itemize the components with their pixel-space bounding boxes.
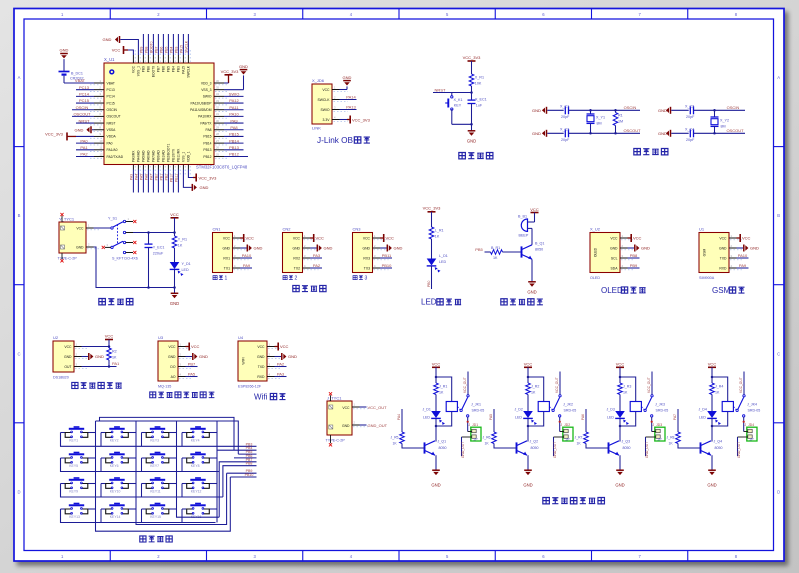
power VCC relay2 [524,361,533,383]
svg-text:PB4: PB4 [172,66,176,72]
svg-text:RXD: RXD [719,266,727,270]
svg-text:J_D1: J_D1 [423,408,431,412]
svg-text:20pF: 20pF [561,115,570,119]
svg-text:J_R8: J_R8 [667,436,675,440]
svg-text:LED: LED [699,416,706,420]
relay J_JK4 coil [722,402,760,413]
svg-text:PC13: PC13 [107,88,115,92]
svg-text:B: B [18,213,21,218]
svg-text:2P: 2P [750,438,755,442]
labels keyboard nets [245,442,254,477]
svg-text:SDA: SDA [611,266,619,270]
svg-text:1M: 1M [618,120,623,124]
relay switch J_JK2 [549,372,561,432]
svg-text:VCC: VCC [322,88,330,92]
wire keyboard row1 bus [61,433,257,447]
wire relay4 coil feed [711,376,728,402]
wire buzzer base [503,251,522,253]
svg-text:VCC_3V3: VCC_3V3 [423,206,442,211]
svg-text:VCC: VCC [257,345,265,349]
svg-text:PB9: PB9 [140,46,144,53]
svg-text:GND: GND [75,127,84,132]
svg-text:PB4: PB4 [170,46,174,53]
svg-text:VCC: VCC [223,236,231,240]
svg-text:PA5: PA5 [188,372,196,377]
svg-text:TX2: TX2 [294,266,300,270]
key KEY11 [142,477,174,493]
wire PA2 CN2 [310,263,322,268]
transistor J_Q4 [701,440,723,456]
svg-text:VBAT: VBAT [75,78,86,83]
svg-text:L_D1: L_D1 [439,254,448,258]
svg-text:GND: GND [64,355,72,359]
svg-text:PA15: PA15 [182,66,186,74]
wire relay3 emitter [619,455,621,470]
pins U3 [168,342,193,379]
svg-text:PA13: PA13 [346,105,356,110]
wires keyboard bundle [217,450,257,517]
svg-text:VCC_OUT: VCC_OUT [555,377,559,393]
svg-text:J_JD3: J_JD3 [653,423,663,427]
caption J-Link OB interface [317,136,370,145]
svg-text:KEY7: KEY7 [150,464,159,468]
svg-text:VCC: VCC [293,236,301,240]
svg-text:GND: GND [658,131,667,136]
caption crystal circuit [634,148,668,154]
svg-text:PA12/USB/DP: PA12/USB/DP [190,101,212,105]
svg-text:J_JK1: J_JK1 [471,403,481,407]
svg-text:CN2: CN2 [283,227,292,232]
svg-text:PB3: PB3 [175,46,179,53]
no-connect marks Y_TYC1 [60,213,84,263]
svg-text:SWIO: SWIO [320,108,329,112]
svg-text:PA3: PA3 [313,253,321,258]
svg-text:2P: 2P [658,438,663,442]
svg-text:BOOT0: BOOT0 [152,66,156,77]
svg-text:PB2/BOOT1: PB2/BOOT1 [167,144,171,162]
svg-text:U2: U2 [53,335,59,340]
svg-text:PA1: PA1 [112,361,120,366]
svg-text:C: C [777,351,780,356]
svg-text:GND: GND [199,354,208,359]
wire PA5 U3 [186,372,198,377]
key KEY6 [101,452,133,468]
power VCC X_U2 [628,234,642,242]
svg-text:VCC: VCC [191,344,200,349]
wires PC13 PC14 PC15 [76,85,94,103]
module U3 body [158,335,178,389]
svg-text:10K: 10K [475,82,482,86]
wire relay1 gnd out [461,437,472,458]
svg-text:KEY6: KEY6 [110,464,119,468]
wire PB5 buzzer input [475,247,490,252]
key KEY7 [142,452,174,468]
svg-text:1: 1 [225,276,228,282]
transistor J_Q2 [517,440,539,456]
key KEY16 [182,503,214,519]
svg-text:KEY: KEY [454,104,462,108]
svg-text:PA11/USB/DM: PA11/USB/DM [190,108,212,112]
svg-text:GND: GND [523,483,532,488]
resistor L_R1 [429,227,443,239]
relay J_JK1 coil [446,402,484,413]
svg-text:GND_OUT: GND_OUT [461,442,465,458]
svg-text:PA10: PA10 [242,253,252,258]
svg-text:8M: 8M [597,121,602,125]
svg-text:KEY15: KEY15 [150,515,161,519]
svg-text:VCC_3V3: VCC_3V3 [463,55,482,60]
svg-text:C: C [17,351,20,356]
ground relay4 [707,470,716,487]
svg-text:PA2/TX/AD: PA2/TX/AD [107,155,124,159]
relay J_JK3 coil [630,402,668,413]
svg-text:X_R1: X_R1 [475,76,484,80]
svg-text:PB3: PB3 [177,66,181,72]
svg-text:PB10: PB10 [170,174,174,182]
svg-text:PB10: PB10 [245,473,254,477]
svg-text:TXD: TXD [720,256,727,260]
ground top-left of mcu [103,36,139,55]
wire relay1 emitter [435,455,437,470]
resistor J_R5 input [391,432,425,448]
led J_D3 [607,395,630,426]
wire OSCOUT [623,128,641,133]
svg-text:VCC: VCC [76,227,84,231]
svg-text:OLED: OLED [594,247,598,257]
svg-text:GND: GND [239,64,248,69]
svg-text:J_R7: J_R7 [575,436,583,440]
ground CN2 [310,245,333,252]
ground CN3 [380,245,403,252]
svg-text:J_R5: J_R5 [391,436,399,440]
svg-text:NRST: NRST [107,121,116,125]
svg-text:U3: U3 [158,335,164,340]
key KEY14 [101,503,133,519]
svg-text:VCC: VCC [64,345,72,349]
wire relay1 input [397,409,402,432]
ground at mcu VSS_1 bottom [183,170,208,191]
svg-text:KEY8: KEY8 [191,464,200,468]
svg-text:OSCOUT: OSCOUT [726,128,744,133]
svg-text:PA9: PA9 [243,263,251,268]
svg-text:GSM: GSM [703,248,707,256]
svg-text:PB13: PB13 [203,148,211,152]
svg-text:A: A [777,75,780,80]
svg-text:PB5: PB5 [165,46,169,53]
svg-text:VCC: VCC [616,361,625,366]
wire OSCOUT2 [726,128,744,133]
svg-text:PA9: PA9 [739,263,747,268]
connector J_TYC1 body [326,396,353,443]
svg-text:GND_OUT: GND_OUT [553,442,557,458]
svg-text:GND: GND [394,246,403,251]
svg-text:TXD: TXD [258,365,265,369]
svg-text:SRD-05: SRD-05 [656,408,669,412]
power VCC at mcu pin1 [112,46,134,55]
svg-text:20pF: 20pF [686,138,695,142]
svg-text:VCC_3V3: VCC_3V3 [45,132,64,137]
svg-text:GND: GND [103,37,112,42]
svg-text:VSS_1: VSS_1 [182,152,186,162]
connector CN3 body [353,227,373,273]
svg-text:PB10: PB10 [382,263,393,268]
svg-text:D: D [777,489,780,494]
svg-text:PB12: PB12 [229,152,240,157]
svg-text:OLED: OLED [590,276,600,280]
ground CN1 [240,245,263,252]
key KEY5 [61,452,93,468]
svg-text:SIM900A: SIM900A [699,276,715,280]
svg-text:LED: LED [607,416,614,420]
wire OSCIN2 [727,105,740,110]
svg-text:PB15: PB15 [203,135,211,139]
key KEY9 [61,477,93,493]
resistor B_R1 [491,246,503,260]
label serial port 1 [213,276,227,282]
svg-text:2P: 2P [566,438,571,442]
power VCC CN3 [380,234,394,242]
caption GSM module [712,286,745,295]
svg-text:PB14: PB14 [229,138,240,143]
svg-text:PA7/AD: PA7/AD [152,150,156,162]
svg-text:X_C2: X_C2 [685,104,694,108]
wire buzzer emitter [531,259,533,281]
capacitor Y_EC1 [145,233,165,289]
wire relay1 coil return [435,412,452,442]
svg-text:8050: 8050 [715,446,723,450]
svg-text:KEY13: KEY13 [69,515,80,519]
svg-text:PB6: PB6 [160,46,164,53]
wire relay2 gnd out [553,437,564,458]
svg-text:PA10: PA10 [229,112,239,117]
power VCC_3V3 reset [463,55,482,74]
wire NRST [76,118,94,123]
svg-text:GND: GND [532,108,541,113]
svg-text:OLED: OLED [601,286,623,295]
svg-text:RX2: RX2 [293,256,300,260]
wire relay2 emitter [527,455,529,470]
svg-text:VDD_1: VDD_1 [187,151,191,162]
svg-text:PA0: PA0 [107,141,113,145]
wire buzzer collector [528,228,533,244]
mcu right pin stubs and names [190,79,228,159]
svg-text:GND: GND [750,246,759,251]
led Y_D1 [170,248,191,276]
svg-text:LINK: LINK [312,126,321,131]
svg-text:VCC: VCC [363,236,371,240]
transistor B_Q1 [522,242,545,260]
resistor J_R2 [526,383,540,395]
power VCC_3V3 at mcu VDD_1 [188,170,217,182]
svg-text:PA3: PA3 [277,372,285,377]
ground power circuit [170,293,179,306]
svg-text:VCC_OUT: VCC_OUT [647,377,651,393]
svg-text:PA6/AD: PA6/AD [147,150,151,162]
svg-text:PB8: PB8 [145,46,149,53]
svg-text:BOOT0: BOOT0 [150,41,154,53]
svg-text:PA6: PA6 [145,174,149,180]
power VCC relay4 [708,361,717,383]
svg-text:PB7: PB7 [155,46,159,53]
svg-text:OSCIN: OSCIN [727,105,740,110]
wire keyboard row2 bus [61,458,220,472]
power VCC relay3 [616,361,625,383]
svg-text:VCC: VCC [105,334,114,339]
module X_U2 body [590,227,620,281]
svg-text:STM32F103C8T6_LQFP48: STM32F103C8T6_LQFP48 [196,165,248,170]
svg-text:GSM: GSM [712,286,731,295]
svg-text:1K: 1K [178,244,183,248]
svg-text:Y_S1: Y_S1 [108,217,117,221]
resistor J_R7 input [575,432,609,448]
power VCC_3V3 at jlink pin4 [340,116,371,124]
svg-text:1K: 1K [577,441,582,445]
power VCC CN2 [310,234,324,242]
svg-text:BEEP: BEEP [519,234,529,238]
svg-text:LED: LED [439,260,447,264]
svg-text:NRST: NRST [79,118,90,123]
svg-text:NRST: NRST [435,87,446,92]
wire relay4 input [673,409,678,432]
pins U4 [257,342,282,379]
svg-text:SRD-05: SRD-05 [748,408,761,412]
svg-text:GND: GND [362,246,370,250]
module U2 DS18B20 body [53,335,74,380]
svg-text:SWCLK: SWCLK [187,65,191,78]
svg-text:AO: AO [171,375,176,379]
svg-text:VCC: VCC [246,236,255,241]
key KEY2 [101,426,133,442]
crystal X_Y2 [711,109,730,135]
svg-text:PB9: PB9 [142,66,146,72]
svg-text:GND: GND [343,75,352,80]
svg-text:PA7: PA7 [673,414,677,420]
svg-text:PB15: PB15 [229,132,240,137]
svg-text:1K: 1K [485,441,490,445]
svg-text:GND: GND [76,246,84,250]
svg-text:X_JD6: X_JD6 [312,78,325,83]
capacitor X_C4 [685,127,745,142]
svg-text:Wifi: Wifi [254,392,268,401]
svg-text:Y_R1: Y_R1 [178,238,187,242]
svg-text:PB11/RX: PB11/RX [177,148,181,162]
svg-text:GND: GND [60,48,69,53]
svg-text:D: D [17,489,20,494]
svg-text:OSCOUT: OSCOUT [623,128,641,133]
svg-text:1K: 1K [112,356,117,360]
caption temperature module [72,382,122,388]
wire keyboard top bus [96,421,239,454]
ground at VSSA pin [75,126,94,133]
battery B_DC1 CR2032 [59,71,84,80]
svg-text:VCC: VCC [742,236,751,241]
jlink pin stubs and names [317,85,348,122]
key KEY13 [61,503,93,519]
svg-text:PB10/TX: PB10/TX [172,148,176,162]
key KEY10 [101,477,133,493]
svg-text:PB2: PB2 [165,174,169,181]
capacitor X_C1 [560,104,640,119]
svg-text:KEY11: KEY11 [150,490,160,494]
svg-text:GND: GND [707,483,716,488]
led J_D4 [699,395,722,426]
svg-text:CN3: CN3 [353,227,362,232]
relay switch J_JK4 [733,372,745,432]
wire PB8 X_U2 [628,253,640,258]
wire PB10 CN3 [380,263,392,268]
svg-text:1K: 1K [393,441,398,445]
svg-text:PB0: PB0 [155,174,159,181]
svg-text:Y_EC1: Y_EC1 [153,246,165,250]
svg-text:J_Q4: J_Q4 [714,440,723,444]
svg-text:1uF: 1uF [476,104,483,108]
svg-text:RX3: RX3 [363,256,370,260]
resistor Y_R1 [172,236,187,248]
svg-text:GND: GND [222,246,230,250]
ground crystal2 bottom [658,130,689,137]
svg-text:PA0: PA0 [80,138,88,143]
svg-text:PB14: PB14 [203,141,211,145]
wire PA3 CN2 [310,253,322,258]
svg-text:1K: 1K [623,390,628,394]
ground at jlink pin1 [340,75,352,90]
svg-text:VCC_OUT: VCC_OUT [739,377,743,393]
svg-text:PB7: PB7 [157,66,161,72]
power VCC power-circuit [170,212,179,236]
svg-text:PA8: PA8 [206,128,212,132]
ground relay2 [523,470,532,487]
wire relay4 emitter [711,455,713,470]
ground reset [467,131,476,144]
svg-text:GND: GND [200,185,209,190]
svg-text:PB13: PB13 [229,145,240,150]
svg-text:GND: GND [719,246,727,250]
resistor R1 crystal1 [613,109,623,135]
svg-text:J_R1: J_R1 [439,385,447,389]
svg-text:J_R3: J_R3 [623,385,631,389]
wire PB9 X_U2 [628,263,640,268]
svg-text:GND: GND [170,301,179,306]
label serial port 3 [353,276,367,282]
connector CN1 body [213,227,233,273]
svg-text:VSS_3: VSS_3 [201,88,211,92]
svg-text:1K: 1K [715,390,720,394]
svg-text:KEY14: KEY14 [110,515,121,519]
svg-text:SWCLK: SWCLK [317,98,330,102]
svg-text:VCC_3V3: VCC_3V3 [352,117,371,122]
svg-text:J_Q2: J_Q2 [530,440,539,444]
svg-text:X_Y1: X_Y1 [596,115,605,119]
svg-text:U4: U4 [238,335,244,340]
svg-text:PA12: PA12 [229,98,239,103]
svg-text:GND: GND [610,246,618,250]
svg-text:J_JK3: J_JK3 [655,403,665,407]
svg-text:KEY4: KEY4 [191,439,200,443]
svg-text:GND: GND [292,246,300,250]
svg-text:1K: 1K [531,390,536,394]
wire PB11 CN3 [380,253,392,258]
caption led circuit [421,298,461,307]
svg-text:ESP8266-12F: ESP8266-12F [238,385,262,389]
svg-text:PB8: PB8 [147,66,151,72]
svg-text:VSS_1: VSS_1 [137,66,141,76]
svg-text:VCC: VCC [112,48,121,53]
wires OSCIN OSCOUT [72,105,94,117]
svg-text:PC14: PC14 [79,92,90,97]
power VCC_3V3 at mcu VDD_3 [221,69,240,83]
svg-text:X_U2: X_U2 [590,227,601,232]
wire GND_OUT [352,421,388,428]
